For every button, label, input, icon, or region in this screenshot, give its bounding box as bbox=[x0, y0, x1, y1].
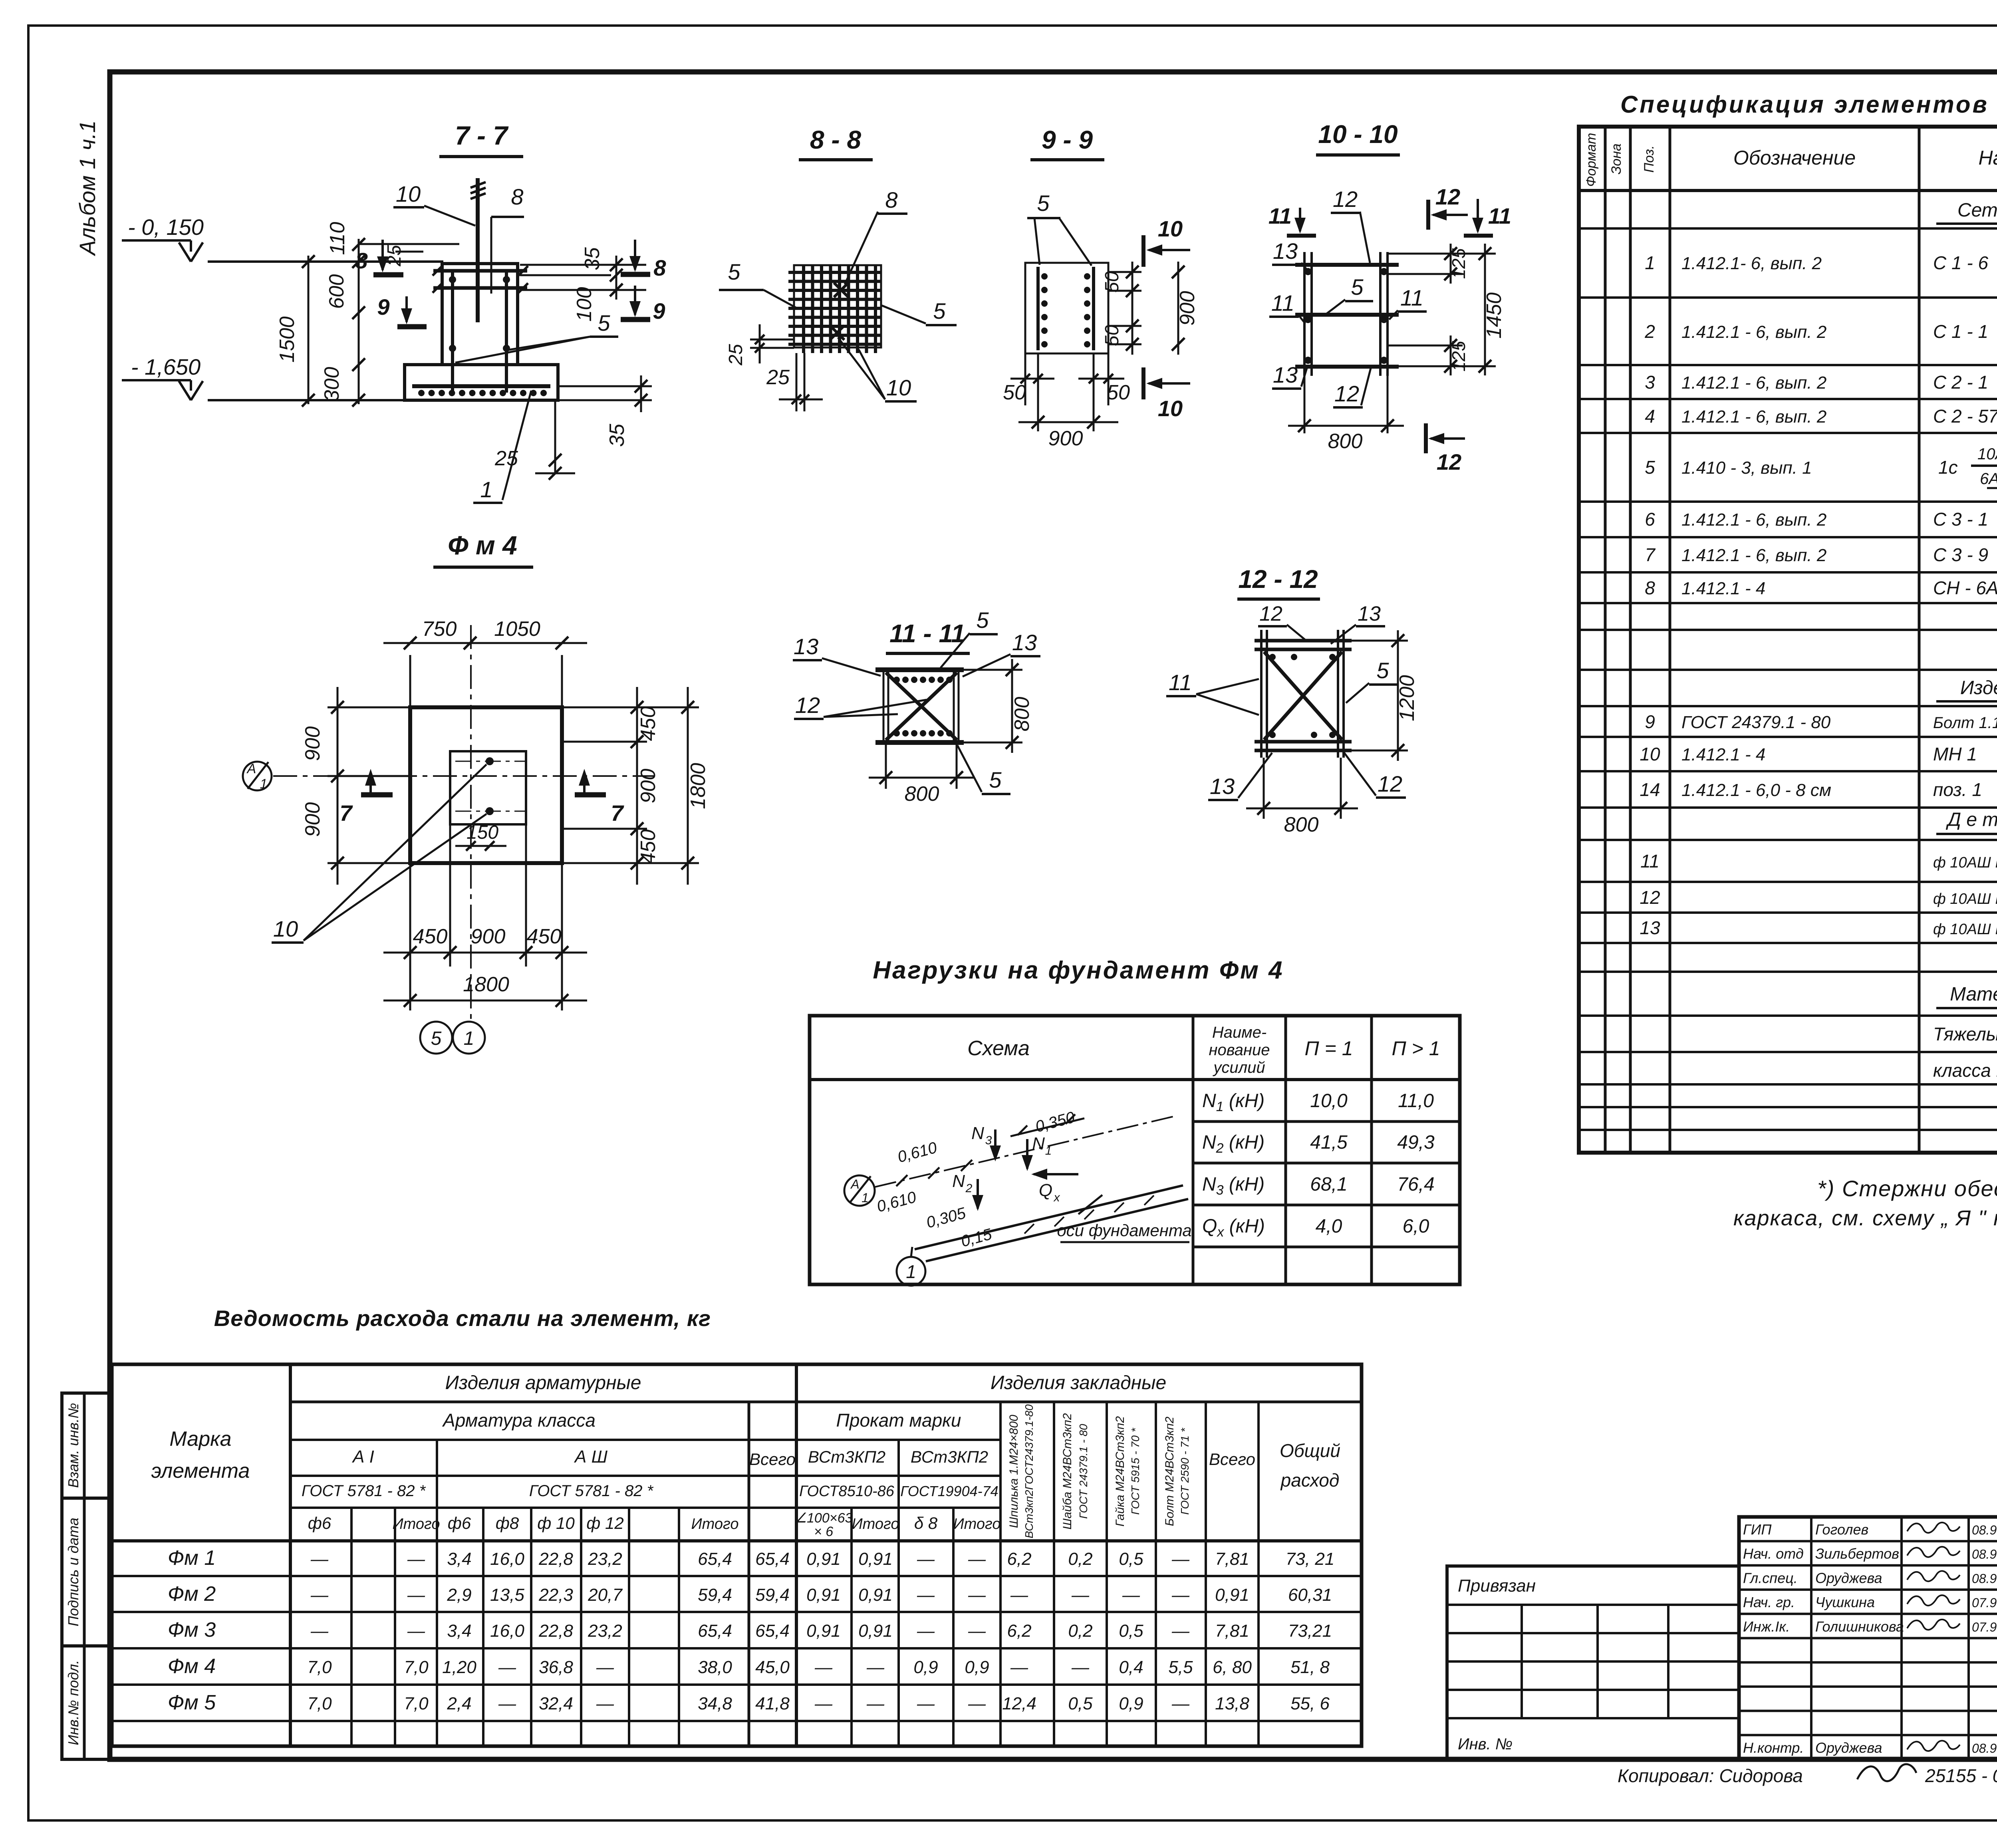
svg-text:900: 900 bbox=[301, 726, 324, 761]
top plate 11-11 bbox=[875, 667, 964, 672]
svg-text:Нач. гр.: Нач. гр. bbox=[1743, 1594, 1795, 1610]
schema sketch axis circle А/1 bbox=[844, 1175, 875, 1206]
svg-text:38,0: 38,0 bbox=[698, 1657, 732, 1677]
svg-text:Нач. отд: Нач. отд bbox=[1743, 1546, 1804, 1562]
section 9-9 outline bbox=[1025, 263, 1108, 353]
svg-text:Спецификация элементов на ф: Спецификация элементов на фундаменты bbox=[1620, 91, 1997, 118]
svg-text:25: 25 bbox=[384, 245, 405, 267]
svg-text:800: 800 bbox=[1284, 813, 1319, 836]
svg-text:08.91: 08.91 bbox=[1972, 1571, 1997, 1586]
svg-text:0,2: 0,2 bbox=[1068, 1549, 1092, 1569]
svg-text:6,2: 6,2 bbox=[1007, 1549, 1031, 1569]
svg-text:Общий: Общий bbox=[1280, 1440, 1340, 1461]
bottom dim 800 bbox=[885, 742, 887, 789]
svg-text:—: — bbox=[310, 1585, 329, 1605]
svg-text:13: 13 bbox=[1012, 630, 1037, 655]
svg-text:Наименование: Наименование bbox=[1978, 147, 1997, 169]
svg-text:Тяжелый бетон: Тяжелый бетон bbox=[1933, 1024, 1997, 1044]
svg-text:класса В 15: класса В 15 bbox=[1933, 1060, 1997, 1081]
level line -1.650 bbox=[208, 399, 405, 401]
diagonal X 11-11 bbox=[886, 673, 957, 740]
svg-text:22,8: 22,8 bbox=[538, 1621, 573, 1641]
steel table horizontals bbox=[290, 1401, 1362, 1403]
right dim 50/50 bbox=[1108, 271, 1141, 273]
svg-text:08.91: 08.91 bbox=[1972, 1523, 1997, 1537]
svg-text:С 1 - 1: С 1 - 1 bbox=[1933, 321, 1988, 342]
svg-text:Инв. №: Инв. № bbox=[1458, 1735, 1513, 1753]
svg-text:Фм 1: Фм 1 bbox=[168, 1546, 216, 1570]
svg-text:35: 35 bbox=[581, 247, 604, 270]
svg-text:ф 10: ф 10 bbox=[537, 1514, 575, 1532]
title block attached table Привязан bbox=[1447, 1566, 1739, 1759]
side bars 11-11 bbox=[883, 670, 885, 742]
svg-text:1500: 1500 bbox=[276, 316, 299, 363]
svg-text:1800: 1800 bbox=[463, 973, 509, 996]
svg-text:нование: нование bbox=[1209, 1041, 1270, 1059]
svg-text:ВСт3КП2: ВСт3КП2 bbox=[911, 1447, 988, 1466]
svg-text:Оруджева: Оруджева bbox=[1815, 1739, 1882, 1756]
svg-text:8: 8 bbox=[885, 187, 897, 212]
margin box: Подпись и дата bbox=[62, 1498, 110, 1646]
svg-text:—: — bbox=[866, 1657, 885, 1677]
svg-text:2: 2 bbox=[965, 1182, 973, 1195]
svg-text:N2 (кН): N2 (кН) bbox=[1202, 1132, 1265, 1156]
svg-text:13: 13 bbox=[1358, 602, 1381, 625]
svg-text:450: 450 bbox=[413, 925, 448, 948]
plan outer square bbox=[410, 707, 562, 863]
right rebar with dots bbox=[1092, 267, 1095, 350]
svg-text:1.412.1 - 6,0 - 8 см: 1.412.1 - 6,0 - 8 см bbox=[1681, 780, 1831, 800]
right dims 125/1450/125 bbox=[1388, 253, 1496, 255]
plan centerline horizontal bbox=[273, 775, 655, 777]
svg-text:—: — bbox=[968, 1694, 986, 1713]
svg-text:2: 2 bbox=[1644, 321, 1655, 342]
svg-text:Голишникова: Голишникова bbox=[1815, 1618, 1904, 1635]
svg-text:Итого: Итого bbox=[393, 1516, 440, 1532]
svg-text:16,0: 16,0 bbox=[490, 1549, 524, 1569]
svg-text:10: 10 bbox=[1640, 744, 1660, 764]
svg-text:12: 12 bbox=[1437, 449, 1461, 474]
svg-text:12: 12 bbox=[1378, 771, 1402, 796]
svg-text:32,4: 32,4 bbox=[539, 1694, 573, 1713]
svg-text:—: — bbox=[814, 1657, 833, 1677]
svg-text:3: 3 bbox=[985, 1134, 992, 1147]
svg-text:—: — bbox=[968, 1621, 986, 1641]
right dim 800 bbox=[964, 669, 1022, 671]
right dim 1200 bbox=[1352, 640, 1408, 642]
svg-text:5: 5 bbox=[1351, 274, 1364, 300]
svg-text:8 - 8: 8 - 8 bbox=[810, 125, 861, 154]
column top mesh bar 1 bbox=[433, 269, 527, 273]
svg-text:1.410 - 3, вып. 1: 1.410 - 3, вып. 1 bbox=[1681, 458, 1812, 478]
svg-text:—: — bbox=[1071, 1585, 1090, 1605]
svg-text:Поз.: Поз. bbox=[1642, 145, 1657, 173]
spec table row lines bbox=[1579, 227, 1997, 230]
svg-text:100: 100 bbox=[573, 287, 596, 322]
svg-text:Д е т а л и: Д е т а л и bbox=[1945, 809, 1997, 830]
section mark 12 bottom right bbox=[1424, 423, 1428, 453]
bottom dims 50 50 900 bbox=[1024, 353, 1026, 405]
svg-text:13: 13 bbox=[1640, 917, 1660, 938]
svg-text:1.412.1 - 6, вып. 2: 1.412.1 - 6, вып. 2 bbox=[1681, 407, 1826, 427]
plan top dim line 750/1050 bbox=[409, 655, 411, 711]
svg-text:65,4: 65,4 bbox=[755, 1621, 790, 1641]
svg-text:22,3: 22,3 bbox=[538, 1585, 573, 1605]
svg-text:Болт М24ВСт3кп2: Болт М24ВСт3кп2 bbox=[1163, 1417, 1176, 1526]
svg-text:6: 6 bbox=[1645, 509, 1655, 530]
svg-text:С 2 - 1: С 2 - 1 bbox=[1933, 372, 1988, 393]
svg-text:Копировал: Сидорова: Копировал: Сидорова bbox=[1618, 1765, 1803, 1786]
svg-text:—: — bbox=[1122, 1585, 1140, 1605]
svg-text:65,4: 65,4 bbox=[698, 1621, 732, 1641]
svg-text:5: 5 bbox=[1376, 658, 1389, 683]
svg-text:1450: 1450 bbox=[1483, 292, 1506, 339]
svg-text:—: — bbox=[968, 1585, 986, 1605]
svg-text:х: х bbox=[1053, 1191, 1060, 1204]
svg-text:08.91: 08.91 bbox=[1972, 1547, 1997, 1562]
svg-text:900: 900 bbox=[471, 925, 506, 948]
svg-text:68,1: 68,1 bbox=[1310, 1174, 1347, 1195]
svg-text:5: 5 bbox=[598, 310, 610, 335]
svg-text:60,31: 60,31 bbox=[1288, 1585, 1332, 1605]
dim 25 left of mesh bbox=[750, 339, 794, 341]
svg-text:N: N bbox=[1032, 1134, 1045, 1153]
svg-text:ГОСТ 24379.1 - 80: ГОСТ 24379.1 - 80 bbox=[1681, 713, 1831, 732]
svg-text:1200: 1200 bbox=[1396, 675, 1419, 721]
svg-text:Инв.№ подл.: Инв.№ подл. bbox=[65, 1660, 81, 1745]
svg-text:10 - 10: 10 - 10 bbox=[1318, 120, 1398, 149]
svg-text:Ф м 4: Ф м 4 bbox=[448, 530, 517, 560]
svg-text:9: 9 bbox=[653, 298, 665, 324]
mesh vertical bars bbox=[802, 265, 805, 353]
svg-text:—: — bbox=[310, 1549, 329, 1569]
dim 25 below mesh bbox=[796, 353, 798, 411]
svg-text:59,4: 59,4 bbox=[698, 1585, 732, 1605]
svg-text:Чушкина: Чушкина bbox=[1815, 1594, 1875, 1610]
section mark 7 right bbox=[575, 792, 606, 798]
svg-text:Подпись и дата: Подпись и дата bbox=[65, 1518, 81, 1626]
svg-text:11: 11 bbox=[1640, 851, 1660, 871]
svg-text:4: 4 bbox=[1645, 406, 1655, 427]
svg-text:Итого: Итого bbox=[953, 1516, 1001, 1532]
svg-text:расход: расход bbox=[1280, 1470, 1340, 1491]
svg-text:П > 1: П > 1 bbox=[1392, 1037, 1440, 1060]
svg-text:Нагрузки на фундамент Фм 4: Нагрузки на фундамент Фм 4 bbox=[873, 957, 1284, 984]
svg-text:11,0: 11,0 bbox=[1398, 1090, 1434, 1112]
svg-text:Шпилька 1.М24×800: Шпилька 1.М24×800 bbox=[1007, 1415, 1020, 1528]
svg-text:10: 10 bbox=[273, 916, 298, 941]
svg-text:ГОСТ 5781 - 82 *: ГОСТ 5781 - 82 * bbox=[529, 1482, 654, 1500]
svg-text:8: 8 bbox=[1645, 578, 1655, 598]
section mark 10 top bbox=[1141, 235, 1145, 267]
spec table outer frame bbox=[1579, 127, 1997, 1153]
svg-text:9: 9 bbox=[377, 294, 389, 320]
svg-text:4,0: 4,0 bbox=[1316, 1216, 1342, 1237]
level line -0.150 bbox=[208, 260, 443, 263]
svg-text:34,8: 34,8 bbox=[698, 1694, 732, 1713]
svg-text:Взам. инв.№: Взам. инв.№ bbox=[65, 1403, 81, 1488]
schema force N2 bbox=[977, 1179, 979, 1209]
svg-text:1,20: 1,20 bbox=[442, 1657, 476, 1677]
svg-text:1: 1 bbox=[480, 477, 492, 502]
svg-text:22,8: 22,8 bbox=[538, 1549, 573, 1569]
svg-text:36,8: 36,8 bbox=[539, 1657, 573, 1677]
svg-text:1.412.1 - 6, вып. 2: 1.412.1 - 6, вып. 2 bbox=[1681, 373, 1826, 393]
svg-text:Арматура класса: Арматура класса bbox=[442, 1410, 596, 1431]
svg-text:2,4: 2,4 bbox=[447, 1694, 471, 1713]
svg-text:ф8: ф8 bbox=[496, 1514, 519, 1532]
svg-text:6, 80: 6, 80 bbox=[1213, 1657, 1252, 1677]
svg-text:1: 1 bbox=[1645, 252, 1655, 273]
svg-text:0,2: 0,2 bbox=[1068, 1621, 1092, 1641]
svg-text:5: 5 bbox=[976, 607, 989, 633]
svg-text:5: 5 bbox=[1645, 457, 1655, 478]
svg-text:Ведомость расхода стали на: Ведомость расхода стали на элемент, кг bbox=[214, 1306, 711, 1331]
svg-text:13: 13 bbox=[794, 634, 818, 659]
svg-text:13: 13 bbox=[1210, 774, 1235, 799]
svg-text:Изделия закладные: Изделия закладные bbox=[1960, 677, 1997, 699]
svg-text:14: 14 bbox=[1640, 779, 1660, 800]
svg-text:Гайка М24ВСт3кп2: Гайка М24ВСт3кп2 bbox=[1114, 1416, 1127, 1527]
svg-text:0,5: 0,5 bbox=[1119, 1549, 1143, 1569]
svg-text:55, 6: 55, 6 bbox=[1290, 1694, 1330, 1713]
grid bubbles 5 and 1 bbox=[420, 1022, 452, 1054]
footing right dims 35/25 bbox=[558, 385, 652, 387]
svg-text:ф 10АШ ГОСТ 5781- 82,* ℓ = 850: ф 10АШ ГОСТ 5781- 82,* ℓ = 850 bbox=[1933, 921, 1997, 938]
svg-text:—: — bbox=[917, 1585, 935, 1605]
svg-text:—: — bbox=[1171, 1694, 1190, 1713]
svg-text:25: 25 bbox=[725, 344, 746, 366]
svg-text:ГОСТ 2590 - 71 *: ГОСТ 2590 - 71 * bbox=[1179, 1427, 1191, 1515]
svg-text:ф 10АШ ГОСТ 5781- 82, ℓ = 118: ф 10АШ ГОСТ 5781- 82, ℓ = 1180 bbox=[1933, 891, 1997, 907]
svg-text:С 2 - 57: С 2 - 57 bbox=[1933, 406, 1997, 427]
svg-text:Qх (кН): Qх (кН) bbox=[1202, 1216, 1265, 1240]
svg-text:- 0, 150: - 0, 150 bbox=[128, 214, 204, 240]
svg-text:7,0: 7,0 bbox=[307, 1657, 332, 1677]
svg-text:25155 - 01 42: 25155 - 01 42 bbox=[1925, 1765, 1997, 1786]
footing bottom rebar bbox=[412, 384, 550, 388]
svg-text:16,0: 16,0 bbox=[490, 1621, 524, 1641]
svg-text:—: — bbox=[1171, 1549, 1190, 1569]
svg-text:12 - 12: 12 - 12 bbox=[1238, 565, 1318, 594]
schema force Qx bbox=[1034, 1173, 1078, 1175]
svg-text:11: 11 bbox=[1268, 203, 1292, 228]
svg-text:1: 1 bbox=[464, 1028, 474, 1049]
dots 12-12 bbox=[1269, 654, 1276, 660]
svg-text:Зильбертов: Зильбертов bbox=[1815, 1546, 1899, 1562]
svg-text:07.91: 07.91 bbox=[1972, 1620, 1997, 1634]
svg-text:—: — bbox=[866, 1694, 885, 1713]
steel table outer frame bbox=[112, 1364, 1362, 1746]
bottom plate 11-11 bbox=[875, 740, 964, 745]
svg-text:900: 900 bbox=[1048, 427, 1083, 450]
svg-text:1.412.1 - 6, вып. 2: 1.412.1 - 6, вып. 2 bbox=[1681, 510, 1826, 530]
svg-text:12: 12 bbox=[795, 693, 820, 718]
svg-text:6,2: 6,2 bbox=[1007, 1621, 1031, 1641]
svg-text:900: 900 bbox=[637, 769, 660, 804]
svg-text:Фм 4: Фм 4 bbox=[168, 1655, 216, 1678]
svg-text:0,5: 0,5 bbox=[1119, 1621, 1143, 1641]
svg-text:11: 11 bbox=[1271, 290, 1294, 316]
svg-text:11: 11 bbox=[1169, 670, 1192, 695]
schema beam lines bbox=[915, 1185, 1183, 1249]
axis circle A/1 bbox=[243, 762, 272, 790]
svg-text:Зона: Зона bbox=[1609, 143, 1624, 174]
margin box: Взам. инв.№ bbox=[62, 1393, 110, 1498]
mesh weld mark X 1 bbox=[834, 283, 848, 297]
svg-text:ф 12: ф 12 bbox=[586, 1514, 623, 1532]
svg-text:1.412.1- 6, вып. 2: 1.412.1- 6, вып. 2 bbox=[1681, 254, 1822, 273]
svg-text:125: 125 bbox=[1448, 248, 1469, 279]
svg-text:12: 12 bbox=[1259, 602, 1282, 625]
svg-text:900: 900 bbox=[301, 802, 324, 837]
svg-text:73, 21: 73, 21 bbox=[1286, 1549, 1334, 1569]
svg-text:13,8: 13,8 bbox=[1215, 1694, 1249, 1713]
column rebar right bbox=[505, 271, 508, 393]
plan left dim 900/900 bbox=[328, 707, 410, 709]
svg-text:× 6: × 6 bbox=[814, 1524, 833, 1539]
svg-text:Марка: Марка bbox=[169, 1427, 231, 1451]
svg-text:—: — bbox=[1071, 1657, 1090, 1677]
svg-text:59,4: 59,4 bbox=[755, 1585, 790, 1605]
svg-text:10,0: 10,0 bbox=[1310, 1090, 1348, 1112]
cage right bars bbox=[1379, 252, 1382, 376]
svg-text:12: 12 bbox=[1640, 887, 1660, 908]
svg-text:7,0: 7,0 bbox=[307, 1694, 332, 1713]
svg-text:С 3 - 9: С 3 - 9 bbox=[1933, 544, 1988, 565]
svg-text:Шайба М24ВСт3кп2: Шайба М24ВСт3кп2 bbox=[1061, 1413, 1074, 1530]
svg-text:110: 110 bbox=[326, 222, 349, 255]
svg-text:800: 800 bbox=[1010, 697, 1034, 732]
svg-text:23,2: 23,2 bbox=[588, 1621, 622, 1641]
dots 11-11 bbox=[893, 677, 900, 683]
svg-text:*) Стержни обеспечивают прос: *) Стержни обеспечивают пространственную… bbox=[1817, 1176, 1997, 1201]
svg-text:6АШ: 6АШ bbox=[1980, 470, 1997, 488]
svg-text:1800: 1800 bbox=[687, 763, 710, 809]
schema main axis dash-dot bbox=[875, 1116, 1174, 1187]
svg-text:125: 125 bbox=[1448, 341, 1469, 371]
svg-text:41,5: 41,5 bbox=[1310, 1132, 1348, 1153]
svg-text:ГОСТ 5915 - 70 *: ГОСТ 5915 - 70 * bbox=[1129, 1427, 1141, 1515]
plan bottom dim 450/900/450 bbox=[409, 863, 411, 967]
mesh weld mark X 2 bbox=[830, 326, 844, 340]
svg-text:Изделия закладные: Изделия закладные bbox=[991, 1372, 1166, 1393]
svg-text:Оруджева: Оруджева bbox=[1815, 1570, 1882, 1586]
svg-text:—: — bbox=[407, 1585, 425, 1605]
bottom dim 800 bbox=[1304, 376, 1306, 433]
svg-text:300: 300 bbox=[320, 367, 343, 402]
loads table frame bbox=[810, 1016, 1460, 1284]
svg-text:65,4: 65,4 bbox=[698, 1549, 732, 1569]
svg-text:3,4: 3,4 bbox=[447, 1549, 471, 1569]
svg-text:20,7: 20,7 bbox=[588, 1585, 623, 1605]
svg-text:3,4: 3,4 bbox=[447, 1621, 471, 1641]
section mark 12 top right bbox=[1426, 200, 1430, 230]
svg-text:12: 12 bbox=[1334, 381, 1359, 406]
svg-text:Материалы: Материалы bbox=[1950, 984, 1997, 1005]
svg-text:5: 5 bbox=[728, 259, 740, 284]
plan inner square (column) bbox=[450, 751, 526, 824]
mesh 8-8 outline bbox=[794, 265, 881, 347]
svg-text:6,0: 6,0 bbox=[1403, 1216, 1429, 1237]
svg-text:—: — bbox=[814, 1694, 833, 1713]
svg-text:Наиме-: Наиме- bbox=[1212, 1024, 1266, 1041]
svg-text:С 1 - 6: С 1 - 6 bbox=[1933, 252, 1988, 273]
svg-text:ГОСТ19904-74: ГОСТ19904-74 bbox=[900, 1483, 998, 1499]
svg-text:13,5: 13,5 bbox=[490, 1585, 524, 1605]
top plates 12-12 bbox=[1255, 639, 1352, 643]
svg-text:1: 1 bbox=[862, 1191, 869, 1205]
svg-text:—: — bbox=[1171, 1585, 1190, 1605]
svg-text:Всего: Всего bbox=[1209, 1450, 1255, 1469]
svg-text:9 - 9: 9 - 9 bbox=[1042, 125, 1093, 154]
svg-text:МН 1: МН 1 bbox=[1933, 744, 1977, 764]
svg-text:7,0: 7,0 bbox=[404, 1694, 429, 1713]
svg-text:8: 8 bbox=[653, 255, 666, 280]
svg-text:—: — bbox=[498, 1657, 516, 1677]
svg-text:35: 35 bbox=[605, 423, 629, 447]
side bars 12-12 bbox=[1260, 630, 1263, 758]
svg-text:7,81: 7,81 bbox=[1215, 1621, 1249, 1641]
cage left bars bbox=[1303, 252, 1306, 376]
svg-text:65,4: 65,4 bbox=[755, 1549, 790, 1569]
svg-text:ВСт3кп2ГОСТ24379.1-80: ВСт3кп2ГОСТ24379.1-80 bbox=[1023, 1404, 1035, 1538]
svg-text:3: 3 bbox=[1645, 372, 1655, 393]
svg-text:0,4: 0,4 bbox=[1119, 1657, 1143, 1677]
svg-text:10: 10 bbox=[886, 375, 911, 400]
svg-text:5: 5 bbox=[933, 298, 946, 324]
svg-text:45,0: 45,0 bbox=[755, 1657, 790, 1677]
svg-text:1: 1 bbox=[1045, 1144, 1052, 1157]
svg-text:ГОСТ 5781 - 82 *: ГОСТ 5781 - 82 * bbox=[302, 1482, 426, 1500]
svg-text:13: 13 bbox=[1273, 238, 1298, 264]
svg-text:А: А bbox=[246, 761, 256, 776]
svg-text:Альбом 1 ч.1: Альбом 1 ч.1 bbox=[75, 120, 100, 256]
svg-text:450: 450 bbox=[637, 707, 660, 741]
svg-text:11 - 11: 11 - 11 bbox=[889, 619, 965, 648]
steel table verticals bbox=[289, 1364, 292, 1746]
svg-text:450: 450 bbox=[527, 925, 562, 948]
footing outline bbox=[405, 365, 558, 400]
svg-text:—: — bbox=[917, 1621, 935, 1641]
svg-text:900: 900 bbox=[1176, 291, 1199, 326]
svg-text:—: — bbox=[1010, 1657, 1028, 1677]
svg-text:—: — bbox=[310, 1621, 329, 1641]
svg-text:50: 50 bbox=[1102, 271, 1123, 293]
svg-text:08.91: 08.91 bbox=[1972, 1741, 1997, 1755]
svg-text:73,21: 73,21 bbox=[1288, 1621, 1332, 1641]
right dim 900 bbox=[1177, 262, 1179, 355]
svg-text:1: 1 bbox=[906, 1261, 916, 1282]
svg-text:750: 750 bbox=[422, 617, 457, 641]
svg-text:1: 1 bbox=[260, 776, 268, 792]
mesh horizontal bars bbox=[788, 271, 881, 274]
svg-text:Прокат марки: Прокат марки bbox=[836, 1410, 961, 1431]
cage middle bar bbox=[1295, 313, 1399, 317]
svg-text:—: — bbox=[596, 1694, 614, 1713]
svg-text:δ 8: δ 8 bbox=[914, 1514, 938, 1532]
svg-text:800: 800 bbox=[1328, 430, 1363, 453]
svg-text:1050: 1050 bbox=[494, 617, 540, 641]
diagonal X 12-12 bbox=[1264, 652, 1342, 740]
svg-text:12: 12 bbox=[1333, 187, 1358, 212]
svg-text:Схемa: Схемa bbox=[967, 1037, 1030, 1060]
svg-text:Гоголев: Гоголев bbox=[1815, 1521, 1868, 1538]
svg-text:11: 11 bbox=[1400, 285, 1423, 310]
svg-text:—: — bbox=[407, 1621, 425, 1641]
svg-text:N: N bbox=[952, 1171, 965, 1191]
svg-text:- 1,650: - 1,650 bbox=[131, 354, 200, 379]
